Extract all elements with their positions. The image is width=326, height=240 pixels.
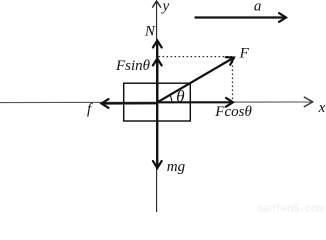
svg-text:y: y (161, 0, 170, 14)
svg-text:N: N (144, 24, 156, 40)
svg-text:Fcosθ: Fcosθ (214, 104, 252, 120)
svg-text:mg: mg (167, 159, 186, 175)
svg-text:x: x (318, 100, 326, 116)
svg-text:F: F (239, 46, 250, 62)
svg-text:Fsinθ: Fsinθ (115, 58, 151, 74)
svg-text:manfen5.com: manfen5.com (257, 203, 324, 212)
svg-text:f: f (87, 102, 93, 118)
svg-text:θ: θ (176, 87, 184, 106)
svg-text:a: a (254, 0, 262, 15)
